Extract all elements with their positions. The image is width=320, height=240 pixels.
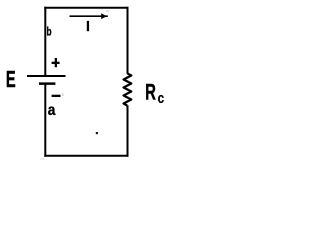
resistor Rc zigzag [124,74,132,106]
battery E long plate (+) [27,75,66,77]
svg-text:a: a [48,101,56,119]
stray dot [96,132,98,134]
label I [87,21,89,31]
svg-text:c: c [158,90,164,107]
svg-text:b: b [47,26,52,39]
wire right lower [127,105,129,156]
wire right upper [127,7,129,74]
battery E short plate (-) [39,82,55,85]
current arrow head [101,13,107,19]
faint artifact near minus [61,93,64,96]
minus sign [52,95,61,97]
wire bottom [44,155,128,157]
faint artifact below arrowhead [106,10,109,12]
wire left upper [44,7,46,75]
svg-text:E: E [6,68,16,93]
plus sign [52,58,60,67]
faint artifact bottom-left [41,158,45,160]
svg-text:R: R [145,79,156,104]
current arrow shaft [70,15,108,17]
wire top [44,7,128,9]
wire left lower [44,84,46,157]
